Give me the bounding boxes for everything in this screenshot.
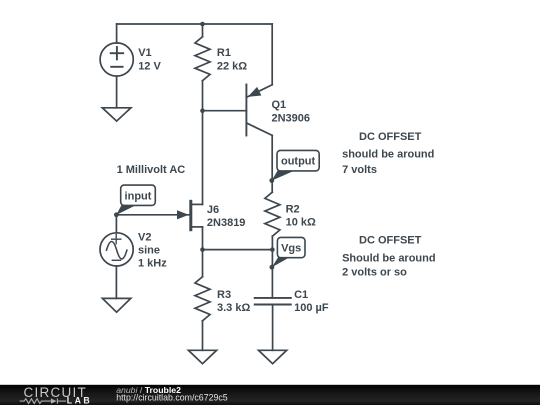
J6 gate arrow	[178, 211, 188, 219]
voltage source V1	[100, 43, 133, 76]
svg-text:J6: J6	[207, 204, 219, 216]
svg-text:V1: V1	[138, 47, 151, 59]
svg-text:7 volts: 7 volts	[342, 164, 377, 176]
wire Q1 collector to R2	[271, 135, 273, 192]
wire J6 source to R2 bottom node	[203, 249, 273, 251]
footer credit text	[116, 385, 228, 403]
Q1 collector lead	[247, 123, 272, 135]
svg-text:2 volts or so: 2 volts or so	[342, 267, 407, 279]
wire V2 top lead	[115, 215, 117, 233]
resistor R2	[265, 192, 280, 236]
svg-text:22 kΩ: 22 kΩ	[217, 61, 247, 73]
wire R1 top lead	[202, 24, 204, 37]
node Vgs dot	[270, 265, 275, 270]
Q1 emitter arrow (PNP)	[249, 88, 261, 97]
transistor Q1	[246, 24, 272, 192]
svg-text:2N3819: 2N3819	[207, 217, 246, 229]
wire J6 source down to node	[202, 227, 204, 250]
wire V1 bottom lead	[116, 76, 118, 108]
wire R2 bottom to C1	[271, 236, 273, 298]
node flag input	[116, 185, 155, 215]
J6 drain stub	[192, 203, 203, 205]
svg-text:DC OFFSET: DC OFFSET	[359, 234, 422, 246]
svg-text:1 Millivolt AC: 1 Millivolt AC	[117, 164, 186, 176]
JFET J6	[116, 201, 202, 249]
resistor R3	[202, 250, 204, 277]
svg-text:R1: R1	[217, 47, 231, 59]
svg-text:Vgs: Vgs	[281, 243, 301, 255]
svg-text:10 kΩ: 10 kΩ	[286, 217, 316, 229]
wire gate from input node	[116, 214, 189, 216]
svg-text:C1: C1	[294, 289, 308, 301]
node flag output	[272, 150, 320, 180]
svg-text:LAB: LAB	[67, 396, 92, 405]
wire top rail	[117, 23, 273, 25]
wire Q1 emitter to top rail	[271, 24, 273, 85]
junction R1 bottom / Q1 base	[200, 108, 205, 113]
wire R3 bottom lead	[202, 321, 204, 351]
ground below R3	[188, 350, 216, 363]
node input junction	[114, 212, 119, 217]
svg-text:12 V: 12 V	[138, 60, 161, 72]
V1 plus/minus marks	[111, 47, 124, 67]
Q1 emitter lead	[247, 85, 272, 97]
svg-text:should be around: should be around	[342, 149, 434, 161]
svg-text:100 µF: 100 µF	[294, 302, 329, 314]
svg-text:3.3 kΩ: 3.3 kΩ	[217, 302, 250, 314]
svg-text:2N3906: 2N3906	[272, 112, 311, 124]
node output dot	[269, 178, 274, 183]
svg-text:output: output	[281, 156, 316, 168]
V2 sine waveform	[107, 242, 127, 259]
svg-text:Should be around: Should be around	[342, 252, 436, 264]
svg-text:http://circuitlab.com/c6729c5: http://circuitlab.com/c6729c5	[116, 393, 228, 403]
wire Q1 base	[203, 110, 247, 112]
resistor R1	[195, 37, 210, 81]
voltage source V2 sine	[100, 233, 133, 266]
capacitor C1	[255, 298, 291, 305]
svg-text:Q1: Q1	[272, 99, 287, 111]
node flag Vgs	[272, 237, 305, 267]
svg-text:1 kHz: 1 kHz	[138, 258, 167, 270]
J6 channel bar	[189, 201, 192, 229]
wire V2 bottom lead	[115, 266, 117, 298]
junction R1 top at rail	[200, 22, 205, 27]
svg-text:R2: R2	[286, 203, 300, 215]
junction J6 source / R3	[200, 247, 205, 252]
svg-text:DC OFFSET: DC OFFSET	[359, 131, 422, 143]
J6 source stub	[192, 226, 203, 228]
ground below C1	[259, 350, 287, 363]
V2 plus/minus marks	[112, 235, 121, 261]
ground below V1	[102, 108, 131, 121]
logo resistor+diode glyph	[20, 398, 66, 403]
svg-text:sine: sine	[138, 244, 160, 256]
svg-text:input: input	[125, 190, 152, 202]
ground below V2	[102, 298, 130, 312]
footer bar	[0, 385, 540, 405]
circuitlab logo wordmark	[20, 385, 92, 405]
wire R1 bottom to J6 drain	[202, 81, 204, 205]
wire V1 top lead	[116, 24, 118, 43]
Q1 base bar	[245, 85, 247, 136]
svg-text:R3: R3	[217, 289, 231, 301]
wire C1 bottom lead	[272, 305, 274, 351]
junction source wire / R2-C1	[270, 247, 275, 252]
svg-text:V2: V2	[138, 232, 151, 244]
